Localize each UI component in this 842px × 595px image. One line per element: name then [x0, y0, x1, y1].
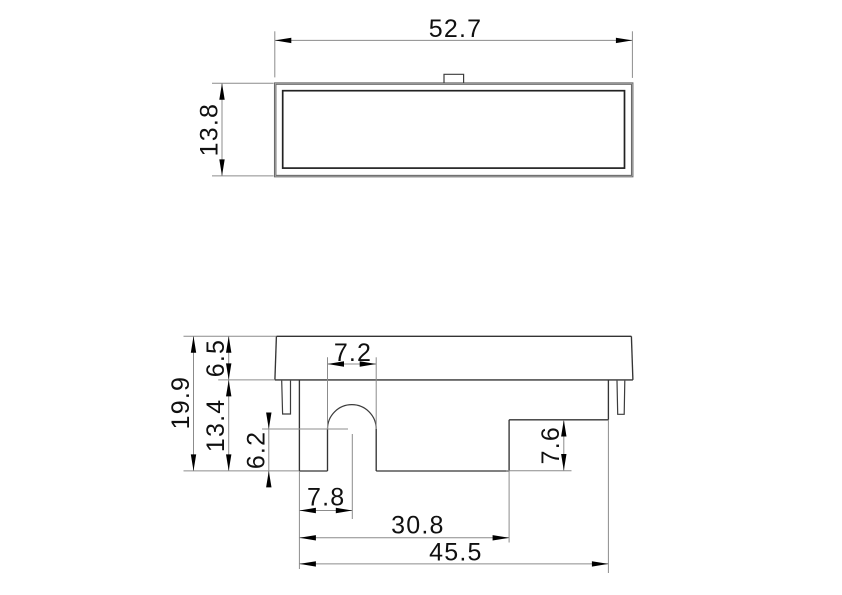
dimension 13.8: top extension line	[212, 82, 274, 84]
dimension 13.4: dimension line	[228, 380, 230, 471]
dimension 52.7: right extension line	[631, 31, 633, 78]
dimension 13.8: bottom extension line	[212, 175, 274, 177]
side view: body right edge	[607, 380, 609, 420]
extension line: body left edge extended below	[298, 471, 300, 569]
svg-text:45.5: 45.5	[429, 539, 482, 567]
side view: body bottom edge left of arch	[299, 470, 327, 472]
dimension 19.9: dimension line	[193, 336, 195, 471]
dimension 7.2: right extension line	[375, 357, 377, 429]
dimension 52.7: left arrowhead	[275, 38, 292, 43]
dimension 7.2: right arrowhead	[360, 361, 377, 366]
dimension 6.5: dimension line	[228, 336, 230, 380]
extension line: arch centre extended below	[351, 434, 353, 519]
svg-text:13.4: 13.4	[202, 399, 230, 452]
dimension 19.9: top arrowhead	[191, 336, 196, 353]
dimension 30.8: dimension line	[299, 537, 509, 539]
side view: body left edge	[298, 380, 300, 471]
dimension 13.4: bottom arrowhead	[226, 454, 231, 471]
dimension 13.8: bottom arrowhead	[219, 159, 224, 176]
dimension 6.2: lower (outside) arrowhead	[266, 471, 271, 488]
side view: bezel left slanted edge	[275, 336, 277, 380]
side view: step horizontal edge	[509, 419, 608, 421]
svg-text:52.7: 52.7	[429, 15, 482, 43]
dimension 30.8: right arrowhead	[493, 535, 510, 540]
svg-text:7.6: 7.6	[537, 426, 565, 464]
dimension 45.5: left arrowhead	[299, 561, 316, 566]
dimension 19.9: top extension line	[184, 335, 277, 337]
svg-text:19.9: 19.9	[167, 376, 195, 429]
top view: small tab on top edge	[444, 74, 464, 83]
dimension 7.6: top arrowhead	[561, 420, 566, 437]
dimension 7.8: right arrowhead	[336, 508, 353, 513]
side view: arch notch right vertical edge	[375, 429, 377, 471]
dimension 6.2: upper (outside) arrowhead	[266, 413, 271, 430]
dimension 7.8: dimension line	[299, 510, 352, 512]
dimension 52.7: dimension line	[275, 39, 633, 41]
side view: bezel bottom edge	[275, 379, 633, 381]
side view: body bottom edge right of arch	[376, 470, 509, 472]
side view: arch notch left vertical edge	[327, 429, 329, 471]
dimension 19.9: bottom extension line	[184, 470, 300, 472]
top view: outer case rectangle (outline B, inner parallel edge)	[276, 84, 632, 175]
top view: display window inner rectangle	[283, 91, 625, 168]
dimension 13.8: dimension line	[221, 83, 223, 176]
side view: left mounting foot	[282, 381, 291, 414]
dimension 7.6: dimension line	[563, 420, 565, 471]
side view: step vertical edge	[508, 420, 510, 471]
dimension 52.7: right arrowhead	[616, 38, 633, 43]
svg-text:6.2: 6.2	[242, 431, 270, 469]
dimension 7.6: bottom extension line	[506, 470, 572, 472]
svg-text:7.2: 7.2	[334, 339, 372, 367]
dimension 30.8: left arrowhead	[299, 535, 316, 540]
svg-text:6.5: 6.5	[202, 339, 230, 377]
dimension 6.5: bottom arrowhead	[226, 363, 231, 380]
dimension 7.6: bottom arrowhead	[561, 454, 566, 471]
dimension 7.2: left extension line	[327, 357, 329, 429]
svg-text:30.8: 30.8	[391, 512, 444, 540]
dimension 6.2: dimension line shaft	[268, 414, 270, 487]
dimension 19.9: bottom arrowhead	[191, 454, 196, 471]
dimension 6.5: mid extension line	[218, 379, 275, 381]
side view: bezel right slanted edge	[631, 336, 633, 380]
svg-text:13.8: 13.8	[195, 103, 223, 156]
dimension 6.5: top arrowhead	[226, 336, 231, 353]
side view: arch notch semicircular arc	[328, 405, 377, 429]
dimension 45.5: dimension line	[299, 563, 608, 565]
dimension 7.8: left arrowhead	[299, 508, 316, 513]
dimension 7.2: dimension line	[328, 363, 377, 365]
extension line: step edge extended below	[508, 471, 510, 543]
extension line: body right edge extended below	[607, 420, 609, 573]
side view: right mounting foot	[617, 381, 625, 415]
dimension 6.2: extension line from arch centre	[262, 428, 348, 430]
dimension 45.5: right arrowhead	[592, 561, 609, 566]
dimension 13.4: top arrowhead	[226, 380, 231, 397]
dimension 7.2: left arrowhead	[328, 361, 345, 366]
dimension 13.8: top arrowhead	[219, 83, 224, 100]
side view: bezel top edge	[276, 335, 631, 337]
dimension 52.7: left extension line	[274, 31, 276, 77]
top view: outer case rectangle (outline A)	[275, 83, 633, 177]
svg-text:7.8: 7.8	[307, 483, 345, 511]
